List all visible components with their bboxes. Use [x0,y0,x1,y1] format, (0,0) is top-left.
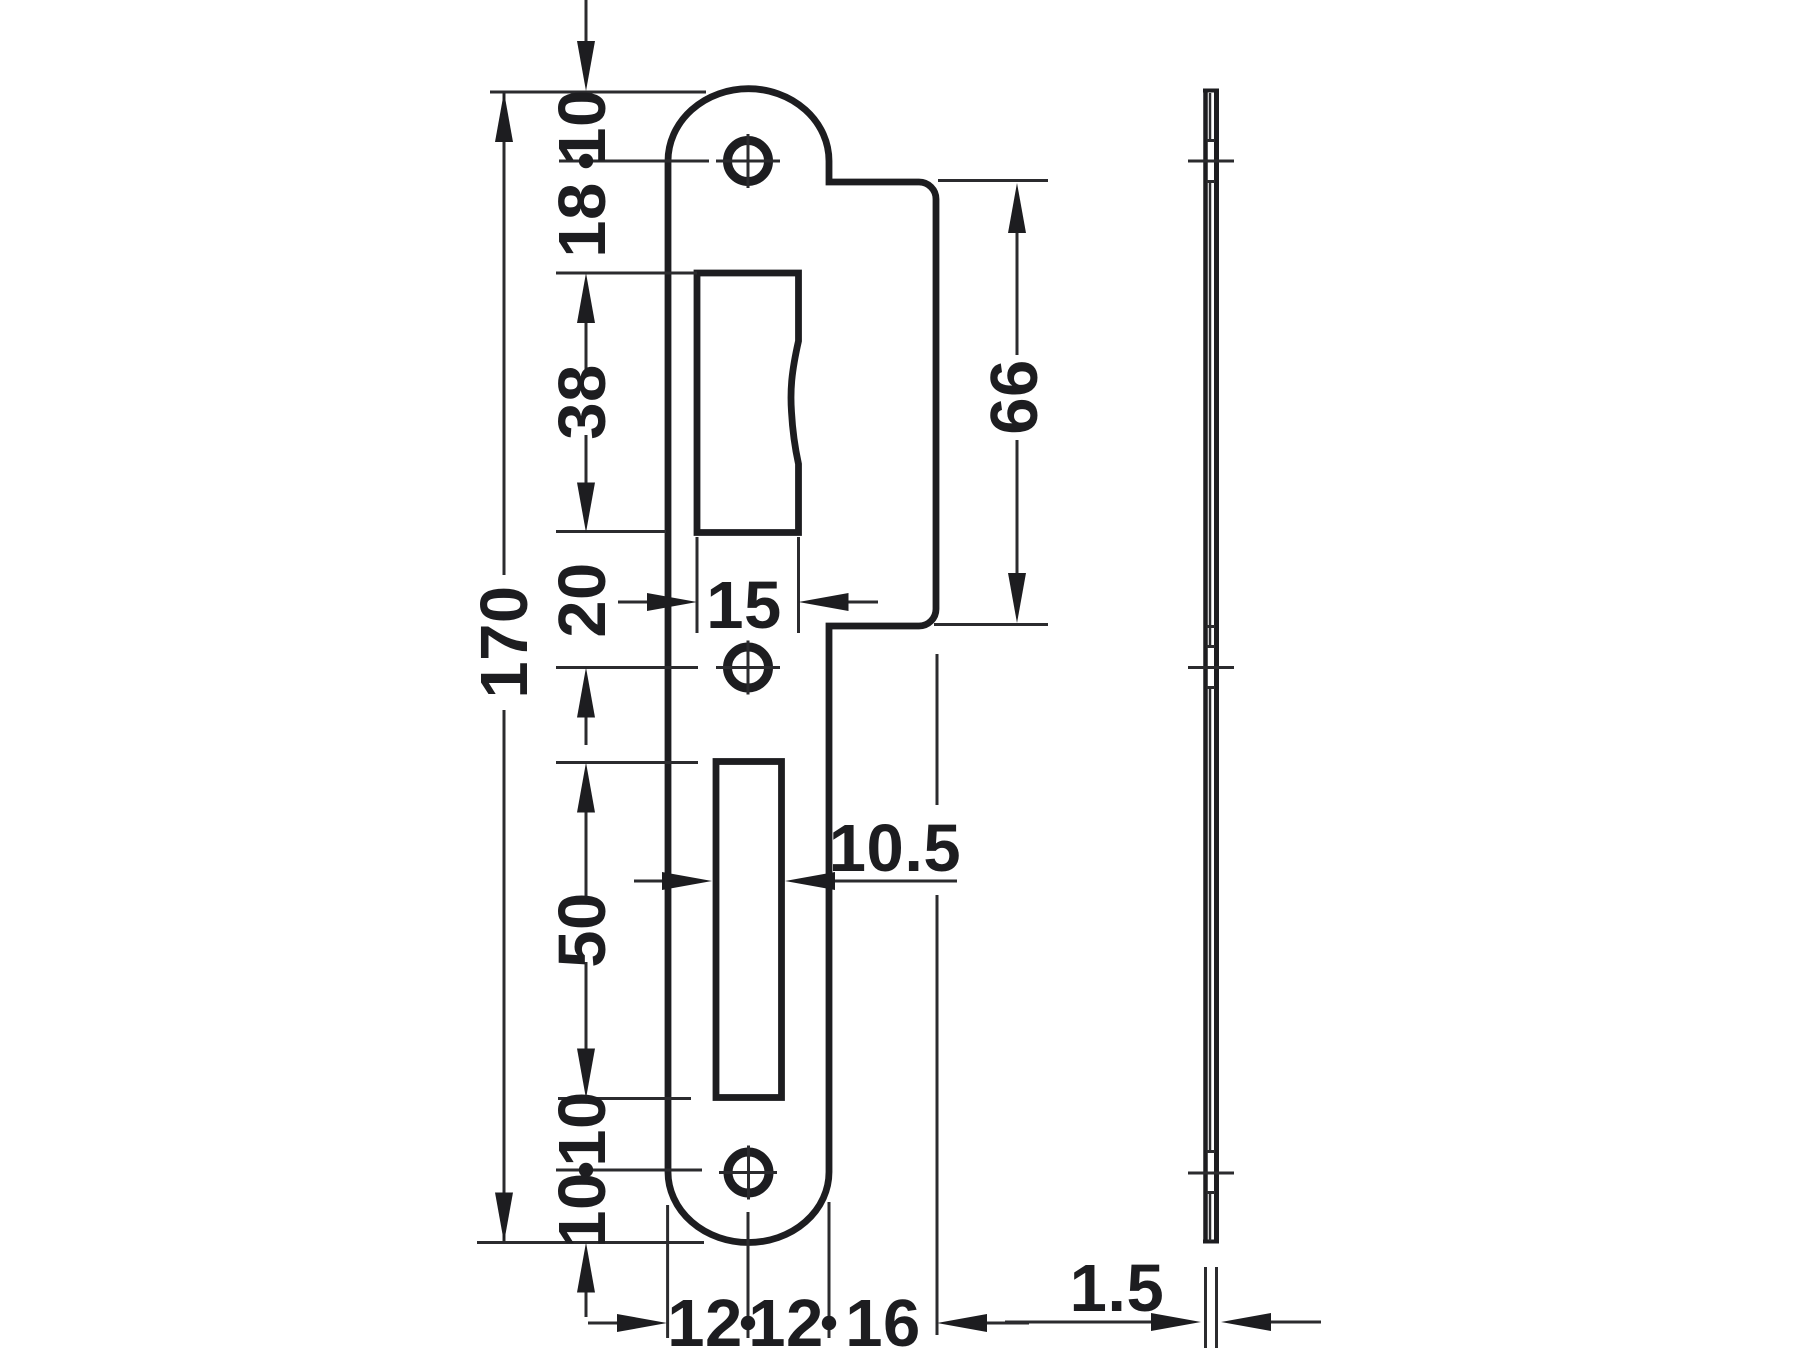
screw hole top centerlines [716,134,780,188]
svg-text:50: 50 [545,892,620,968]
strike plate outline (front view) [668,89,936,1243]
dimension 170 line [503,92,506,1243]
extension line hole bottom center [556,1169,702,1172]
bottom chain extension line plate left [666,1205,669,1338]
dim 66 extension line bottom [934,623,1048,626]
svg-text:38: 38 [545,364,620,440]
svg-text:66: 66 [977,359,1052,435]
bottom outside arrow below plate bottom [585,1291,588,1318]
dimension 170 top arrow [495,92,513,142]
dim 10.5 right arrow and line [833,880,957,883]
dim 38 bottom arrow [577,483,595,533]
extension line latch cutout top [556,272,697,275]
extension line hole middle center [556,666,698,669]
bottom chain extension line hole axis [747,1212,750,1338]
bottom chain dot first [741,1316,755,1330]
svg-text:20: 20 [545,562,620,638]
side view centerline hole middle [1188,666,1234,669]
dim 10 outside arrow above plate top [585,0,588,48]
dim 66 top arrow [1008,183,1026,233]
svg-text:10: 10 [545,1091,620,1167]
extension line plate bottom [477,1241,704,1244]
screw hole bottom centerlines [719,1146,777,1200]
dim 10.5 left arrow [634,880,665,883]
latch cutout 15x38 [697,273,799,533]
svg-text:10.5: 10.5 [829,811,961,886]
side view top cap [1203,89,1219,93]
dim 15 left arrow [618,601,650,604]
dim 1.5 right arrow [1269,1321,1321,1324]
side view bottom cap [1203,1240,1219,1244]
dim 1.5 left arrow [1005,1321,1153,1324]
bottom chain extension line plate right [828,1202,831,1338]
extension line deadbolt cutout bottom [558,1097,691,1100]
side view centerline hole bottom [1188,1172,1234,1175]
side view inner edge line [1209,93,1212,1241]
extension line hole top center [559,160,709,163]
svg-text:18: 18 [545,182,620,258]
dim 66 extension line top [938,179,1048,182]
deadbolt cutout 10.5x50 [716,762,782,1098]
dim 15 right arrow [847,601,878,604]
dim 66 bottom arrow [1008,573,1026,623]
dim 50 bottom arrow [577,1049,595,1099]
svg-text:15: 15 [706,568,782,643]
chain dot at hole bottom line [579,1163,593,1177]
svg-text:10: 10 [545,1172,620,1248]
screw hole middle [728,647,769,688]
unlabeled chain segment arrow below hole middle [585,716,588,746]
bottom chain right arrow [985,1322,1029,1325]
chain dot at hole top line [579,154,593,168]
dim 38 top arrow [577,273,595,323]
side view right face line [1214,89,1219,1243]
extension line latch cutout bottom [556,530,666,533]
dim 50 top arrow [577,763,595,813]
svg-text:16: 16 [845,1286,921,1350]
svg-text:12: 12 [667,1286,743,1350]
dim 1.5 extension lines [1206,1267,1217,1348]
svg-text:10: 10 [545,89,620,165]
svg-text:12: 12 [748,1286,824,1350]
dim 66 line [1016,231,1019,575]
side view centerline hole top [1188,160,1234,163]
bottom chain left arrow [588,1322,620,1325]
screw hole middle centerlines [716,641,780,695]
dimension 170 bottom arrow [495,1193,513,1243]
svg-text:1.5: 1.5 [1070,1251,1165,1326]
svg-text:170: 170 [467,585,542,698]
dim 15 extension lines [697,537,799,633]
bottom chain dot second [822,1316,836,1330]
bottom chain extension line lip right [936,654,939,1335]
side view left face line [1203,89,1208,1243]
screw hole bottom [728,1152,769,1193]
dim 50 line [585,811,588,1051]
side view hole edge ticks [1207,141,1216,1193]
extension line deadbolt cutout top [556,761,698,764]
extension line plate top [490,91,706,94]
dim 38 line [585,321,588,485]
screw hole top [728,141,769,182]
